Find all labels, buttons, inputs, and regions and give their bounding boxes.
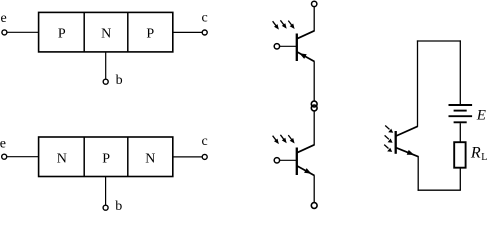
terminal collector (PNP phototransistor symbol) <box>312 1 317 6</box>
wire resistor to bottom <box>459 168 461 191</box>
base bar (PNP phototransistor) <box>296 34 298 62</box>
collector diagonal (PNP phototransistor) <box>297 31 315 39</box>
wire battery to resistor <box>459 123 461 142</box>
bottom wire of bias circuit <box>418 189 461 191</box>
light arrow 3 (NPN phototransistor) <box>288 135 292 140</box>
light arrow 3 (PNP phototransistor) <box>288 21 292 26</box>
battery plate 4 short <box>454 121 467 123</box>
collector diagonal (circuit phototransistor) <box>396 126 418 136</box>
svg-text:P: P <box>146 26 154 41</box>
wire NPN block to c <box>173 156 202 158</box>
svg-text:N: N <box>145 151 155 166</box>
svg-text:e: e <box>0 11 6 26</box>
svg-text:c: c <box>201 134 207 149</box>
light arrow 1 (PNP phototransistor) <box>273 21 277 26</box>
svg-text:E: E <box>476 108 486 124</box>
NPN block outline <box>39 137 173 177</box>
PNP block divider 2 <box>127 12 129 52</box>
emitter arrow pointing to base (PNP) <box>299 53 306 59</box>
base terminal (PNP phototransistor) <box>274 44 279 49</box>
light arrow 2 (circuit phototransistor) <box>385 135 389 139</box>
battery plate 1 long <box>449 104 473 106</box>
base bar (NPN phototransistor) <box>296 148 298 176</box>
emitter diagonal (NPN phototransistor) <box>297 166 315 176</box>
collector wire (PNP phototransistor) <box>313 7 315 31</box>
terminal emitter (PNP phototransistor) <box>311 101 317 107</box>
svg-text:P: P <box>58 26 66 41</box>
collector diagonal (NPN phototransistor) <box>297 145 315 153</box>
NPN block divider 2 <box>127 137 129 177</box>
svg-text:b: b <box>116 73 123 88</box>
wire PNP block to c <box>173 31 202 33</box>
terminal c (NPN structure) <box>202 154 207 159</box>
light arrow 2 (NPN phototransistor) <box>280 135 284 140</box>
base terminal (NPN phototransistor) <box>274 158 279 163</box>
base wire (NPN structure) <box>105 177 107 206</box>
terminal c (PNP structure) <box>202 30 207 35</box>
svg-text:L: L <box>481 152 487 163</box>
emitter wire down (circuit phototransistor) <box>417 156 419 191</box>
right branch wire (top to battery) <box>459 40 461 104</box>
base bar (circuit phototransistor) <box>395 131 397 154</box>
terminal e (PNP structure) <box>2 30 7 35</box>
emitter diagonal (PNP phototransistor) <box>297 52 315 62</box>
top wire of bias circuit <box>417 40 461 42</box>
battery plate 2 short <box>454 110 467 112</box>
svg-text:e: e <box>0 136 6 151</box>
svg-text:c: c <box>201 11 207 26</box>
terminal b (PNP structure) <box>103 79 108 84</box>
terminal e (NPN structure) <box>2 154 7 159</box>
PNP block divider 1 <box>83 12 85 52</box>
base lead (NPN phototransistor) <box>280 159 297 161</box>
terminal b (NPN structure) <box>103 205 108 210</box>
light arrow 2 (PNP phototransistor) <box>280 20 284 25</box>
emitter diagonal (circuit phototransistor) <box>396 148 419 157</box>
light arrow 3 (circuit phototransistor) <box>384 145 388 149</box>
resistor RL box <box>454 142 465 168</box>
collector wire (NPN phototransistor) <box>313 111 315 145</box>
emitter arrow pointing out (NPN) <box>304 168 311 174</box>
terminal collector (NPN phototransistor symbol) <box>311 105 317 111</box>
light arrow 1 (NPN phototransistor) <box>273 136 277 141</box>
svg-text:N: N <box>57 151 67 166</box>
wire e to NPN block <box>7 156 39 158</box>
emitter arrow (circuit phototransistor NPN) <box>407 150 415 155</box>
left branch wire (collector to top) <box>417 40 419 126</box>
emitter wire (PNP phototransistor) <box>313 61 315 101</box>
battery plate 3 long <box>449 115 473 117</box>
svg-text:b: b <box>115 199 122 212</box>
base lead (PNP phototransistor) <box>280 45 297 47</box>
light arrow 1 (circuit phototransistor) <box>385 126 389 130</box>
base wire (PNP structure) <box>105 52 107 79</box>
NPN block divider 1 <box>83 137 85 177</box>
wire e to PNP block <box>7 31 38 33</box>
svg-text:R: R <box>470 145 481 162</box>
svg-text:P: P <box>102 151 110 166</box>
terminal emitter (NPN phototransistor) <box>311 203 317 209</box>
emitter wire (NPN phototransistor) <box>313 175 315 202</box>
PNP block outline <box>39 12 173 52</box>
svg-text:N: N <box>101 26 111 41</box>
